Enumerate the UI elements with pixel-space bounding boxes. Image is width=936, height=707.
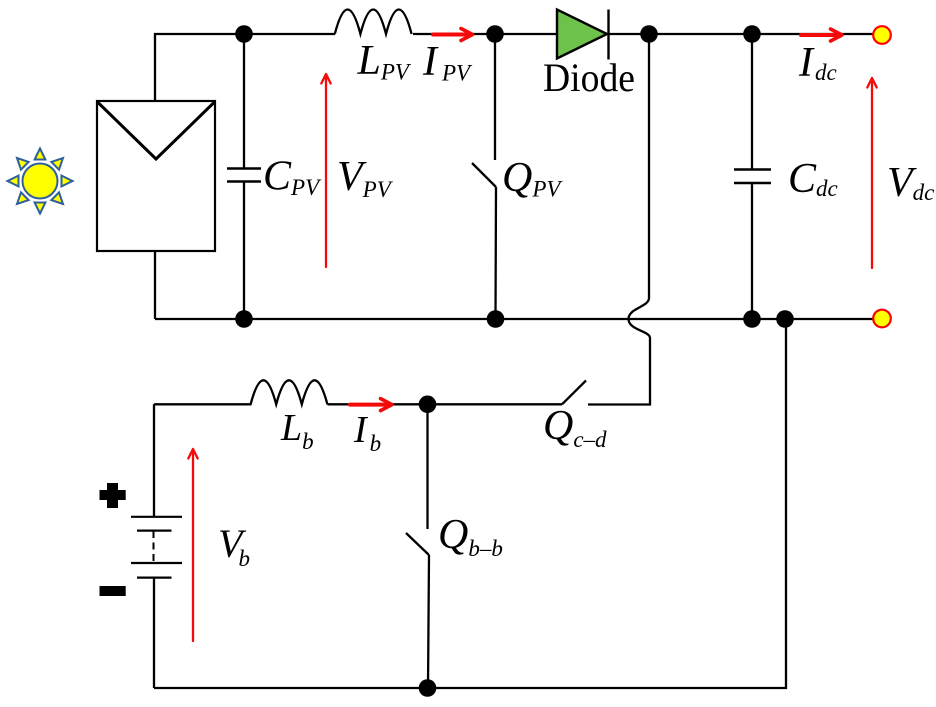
switch Q_PV [472,34,496,319]
arrow V_PV [321,74,330,267]
arrow V_b [188,449,197,641]
switch Q_b-b [406,404,429,688]
arrow I_PV [433,29,473,41]
diode D1 [557,10,609,60]
junction node mid rail at C_dc [743,310,761,328]
PV panel PV1 [97,101,215,251]
wire L_b to node [327,403,427,405]
wire battery top rail [154,403,252,405]
junction node top rail at diode output [640,25,658,43]
junction node mid rail at C_PV [235,310,253,328]
wire PV panel bottom lead [154,251,156,319]
terminal node V_dc plus [873,26,891,44]
wire crossover branch (diode node to Q_c-d) [588,34,650,405]
svg-text:Diode: Diode [543,55,635,100]
capacitor C_dc [734,34,771,319]
battery plus terminal mark [100,483,126,508]
battery V_b [131,404,182,688]
arrow V_dc [867,78,876,268]
junction node mid rail at Q_PV [487,310,505,328]
arrow I_b [350,399,392,411]
junction node top rail at C_dc [743,25,761,43]
switch Q_c-d [427,381,586,405]
inductor L_PV [335,10,413,39]
junction node bottom rail at Q_b-b [419,679,437,697]
wire right branch to battery circuit [154,319,786,688]
sun icon [8,149,73,214]
junction node top rail at Q_PV [486,25,504,43]
wire mid rail (top circuit bottom) [155,318,874,320]
arrow I_dc [801,29,842,41]
junction node mid rail at right branch [776,310,794,328]
battery minus terminal mark [100,586,126,596]
junction node battery rail at Q_b-b [419,396,437,414]
capacitor C_PV [227,34,261,319]
junction node top rail at C_PV [235,25,253,43]
terminal node V_dc minus [873,310,891,328]
wire top rail [155,34,874,101]
inductor L_b [251,380,328,404]
